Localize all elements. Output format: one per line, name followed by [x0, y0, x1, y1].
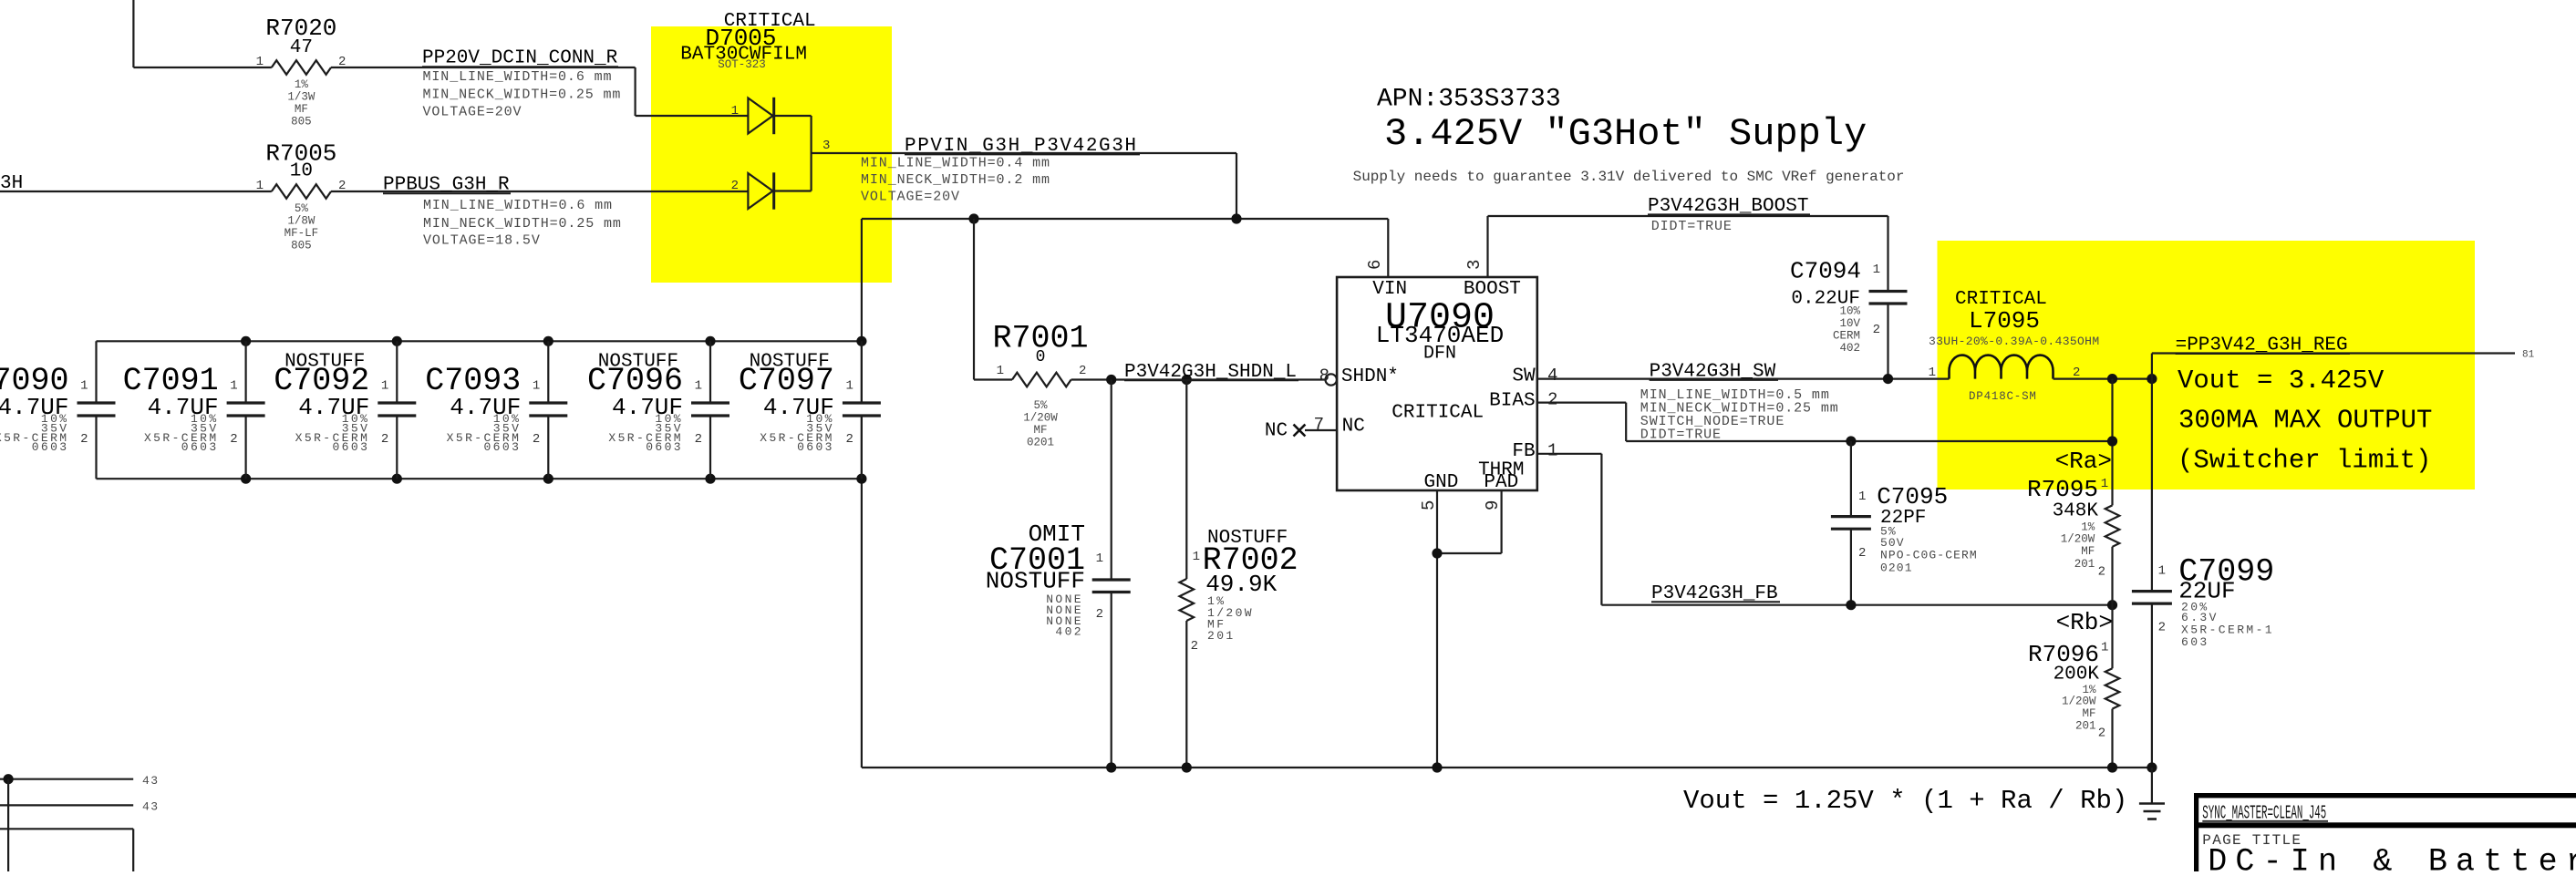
svg-text:MIN_LINE_WIDTH=0.6 mm: MIN_LINE_WIDTH=0.6 mm [423, 69, 613, 85]
svg-text:1%: 1% [295, 78, 309, 91]
diode D7005 element 2 [731, 172, 812, 209]
diode D7005 element 1 [731, 98, 812, 134]
VIN bus wire [862, 213, 1388, 223]
svg-text:10: 10 [290, 161, 313, 182]
svg-text:CERM: CERM [1833, 330, 1860, 343]
svg-text:201: 201 [2074, 558, 2095, 571]
svg-text:5%: 5% [1033, 399, 1048, 412]
capacitor C7093 [425, 341, 567, 479]
resistor R7095 [2027, 379, 2119, 605]
svg-text:VOLTAGE=20V: VOLTAGE=20V [861, 189, 960, 204]
svg-text:5: 5 [1419, 500, 1439, 510]
svg-text:L7095: L7095 [1969, 307, 2040, 335]
svg-text:1: 1 [256, 179, 264, 193]
svg-text:1: 1 [230, 379, 237, 394]
svg-text:SOT-323: SOT-323 [718, 58, 766, 71]
svg-text:1: 1 [2101, 641, 2108, 655]
inductor L7095 [1929, 289, 2100, 403]
svg-text:C7094: C7094 [1790, 258, 1861, 285]
net stub PPBUS_G3H (page edge) [0, 173, 272, 194]
svg-text:1/20W: 1/20W [2062, 695, 2096, 707]
svg-text:47: 47 [290, 37, 313, 58]
resistor R7020 [256, 15, 347, 129]
cap bank top bus [97, 336, 867, 346]
svg-text:1: 1 [256, 55, 264, 69]
BIAS pin 2 wire [1537, 390, 2113, 447]
svg-text:2: 2 [2098, 564, 2105, 579]
wire bus down to cap bank / ground riser [861, 219, 863, 768]
capacitor C7095 [1831, 441, 1978, 605]
svg-text:0603: 0603 [32, 440, 69, 454]
net label PPVIN_G3H_P3V42G3H [861, 136, 1140, 205]
svg-text:VIN: VIN [1372, 279, 1407, 300]
svg-text:2: 2 [1873, 323, 1880, 337]
svg-text:Vout = 3.425V: Vout = 3.425V [2178, 366, 2385, 396]
svg-text:2: 2 [1858, 546, 1866, 561]
svg-text:1: 1 [80, 379, 88, 394]
resistor R7001 [992, 320, 1088, 448]
svg-text:R7095: R7095 [2027, 476, 2098, 503]
ground symbol [2139, 768, 2165, 819]
svg-text:<Ra>: <Ra> [2055, 448, 2112, 475]
svg-text:CRITICAL: CRITICAL [1391, 402, 1484, 423]
svg-text:201: 201 [1207, 629, 1236, 643]
svg-text:2: 2 [731, 179, 739, 193]
text Vout formula [1683, 786, 2127, 816]
IC U7090 (LT3470AED regulator) [1337, 277, 1537, 493]
svg-text:Vout = 1.25V * (1 + Ra / Rb): Vout = 1.25V * (1 + Ra / Rb) [1683, 786, 2127, 816]
svg-text:1: 1 [845, 379, 853, 394]
svg-text:1: 1 [731, 104, 739, 119]
svg-text:3.425V "G3Hot" Supply: 3.425V "G3Hot" Supply [1384, 112, 1867, 156]
svg-text:201: 201 [2075, 719, 2096, 732]
svg-text:(Switcher limit): (Switcher limit) [2178, 445, 2431, 475]
text supply note [1353, 169, 1905, 185]
svg-text:PPBUS_G3H_R: PPBUS_G3H_R [383, 175, 510, 196]
svg-text:1: 1 [2101, 477, 2108, 491]
text APN [1377, 86, 1561, 114]
svg-text:43: 43 [142, 800, 160, 814]
svg-text:2: 2 [1547, 390, 1557, 410]
svg-text:BIAS: BIAS [1489, 391, 1535, 412]
svg-text:1/20W: 1/20W [1023, 412, 1058, 425]
net P3V42G3H_SW [1537, 362, 1950, 443]
svg-text:348K: 348K [2053, 501, 2099, 522]
resistor R7005 [256, 139, 347, 252]
capacitor C7097 [739, 341, 881, 479]
svg-text:2: 2 [230, 432, 237, 447]
svg-text:MF: MF [2081, 545, 2095, 558]
capacitor C7001 [986, 380, 1131, 768]
resistor R7002 [1180, 380, 1298, 768]
svg-text:3: 3 [1464, 260, 1485, 270]
title block SYNC_MASTER [2202, 803, 2328, 825]
D7005 common cathode wire / pin 3 [812, 116, 1236, 191]
svg-text:0201: 0201 [1027, 437, 1054, 449]
capacitor C7092 [274, 341, 416, 479]
capacitor C7099 [2132, 379, 2274, 768]
net label PPBUS_G3H_R [383, 175, 622, 249]
svg-text:BOOST: BOOST [1464, 279, 1521, 300]
diode D7005 labels [680, 11, 815, 71]
svg-text:1: 1 [1929, 366, 1936, 380]
svg-text:9: 9 [1483, 500, 1503, 510]
svg-text:300MA MAX OUTPUT: 300MA MAX OUTPUT [2178, 406, 2432, 436]
svg-text:MF: MF [295, 103, 308, 116]
svg-text:NPO-C0G-CERM: NPO-C0G-CERM [1880, 549, 1978, 562]
svg-text:Supply needs to guarantee 3.31: Supply needs to guarantee 3.31V delivere… [1353, 169, 1905, 185]
wire L7095 to output node [2054, 374, 2157, 384]
U7090 pin 3 stub (BOOST) [1464, 216, 1488, 277]
svg-text:1: 1 [997, 364, 1004, 378]
svg-text:5%: 5% [295, 202, 309, 215]
svg-text:MIN_NECK_WIDTH=0.25 mm: MIN_NECK_WIDTH=0.25 mm [423, 88, 622, 103]
svg-text:DIDT=TRUE: DIDT=TRUE [1651, 219, 1733, 234]
U7090 pin 7 NC with no-connect X [1265, 415, 1337, 442]
svg-text:1: 1 [1873, 263, 1880, 277]
svg-text:DP418C-SM: DP418C-SM [1969, 390, 2037, 403]
title block frame [2194, 793, 2576, 871]
svg-text:7: 7 [1314, 415, 1324, 435]
svg-text:603: 603 [2181, 635, 2209, 649]
wire PPVIN drop to VIN bus [1236, 153, 1237, 219]
svg-text:MF: MF [1033, 424, 1047, 437]
text page title 3.425V G3Hot Supply [1384, 112, 1867, 156]
svg-text:3: 3 [822, 139, 830, 153]
svg-text:MF-LF: MF-LF [284, 227, 319, 240]
svg-text:<Rb>: <Rb> [2056, 609, 2113, 636]
svg-text:1: 1 [1096, 551, 1103, 566]
svg-text:2: 2 [80, 432, 88, 447]
svg-text:0: 0 [1036, 348, 1046, 366]
svg-text:2: 2 [533, 432, 540, 447]
svg-text:81: 81 [2522, 350, 2535, 361]
svg-text:6: 6 [1365, 260, 1385, 270]
node <Ra> label [2055, 448, 2112, 475]
wire to off-page 43 (b) [0, 800, 160, 814]
net P3V42G3H_BOOST [1488, 196, 1888, 234]
svg-text:402: 402 [1839, 342, 1860, 355]
svg-text:43: 43 [142, 774, 160, 788]
wire VIN bus to R7001 [974, 219, 1012, 380]
highlight box around D7005 [651, 26, 892, 283]
svg-text:GND: GND [1424, 472, 1459, 493]
svg-text:MIN_NECK_WIDTH=0.2 mm: MIN_NECK_WIDTH=0.2 mm [861, 172, 1050, 188]
wire from top edge to R7020 [133, 0, 271, 67]
svg-text:1/20W: 1/20W [2061, 532, 2095, 545]
svg-text:805: 805 [291, 240, 312, 252]
capacitor C7090 [0, 341, 116, 479]
title block PAGE TITLE [2202, 832, 2302, 849]
svg-text:1: 1 [2158, 564, 2166, 579]
svg-text:2: 2 [1096, 607, 1103, 622]
ground bus [862, 762, 2157, 772]
svg-text:NC: NC [1342, 417, 1365, 438]
svg-text:0603: 0603 [646, 440, 683, 454]
U7090 SHDN bubble pin 8 [1319, 366, 1337, 386]
svg-text:NOSTUFF: NOSTUFF [986, 567, 1085, 594]
net label P3V42G3H_SHDN_L [1124, 362, 1298, 383]
svg-text:2: 2 [381, 432, 388, 447]
cap bank bottom bus [97, 474, 867, 484]
capacitor C7096 [587, 341, 729, 479]
svg-text:6.3V: 6.3V [2181, 611, 2219, 624]
svg-text:1: 1 [695, 379, 702, 394]
resistor R7096 [2028, 605, 2119, 768]
wire to off-page 43 (a) [0, 774, 160, 871]
title block page name DC-In & Battery [2208, 844, 2576, 876]
svg-text:402: 402 [1055, 625, 1083, 639]
svg-text:33UH-20%-0.39A-0.435OHM: 33UH-20%-0.39A-0.435OHM [1929, 335, 2099, 348]
svg-text:SHDN*: SHDN* [1341, 366, 1399, 387]
svg-text:1: 1 [533, 379, 540, 394]
svg-text:4: 4 [1547, 366, 1557, 386]
svg-text:2: 2 [2158, 621, 2166, 635]
highlight box around L7095 / output note [1938, 241, 2476, 490]
node <Rb> label [2056, 609, 2113, 636]
svg-text:DC-In & Batter: DC-In & Batter [2208, 844, 2576, 871]
svg-text:VOLTAGE=18.5V: VOLTAGE=18.5V [423, 233, 541, 249]
svg-text:NC: NC [1265, 421, 1288, 442]
svg-text:0603: 0603 [797, 440, 834, 454]
svg-text:0603: 0603 [483, 440, 521, 454]
U7090 pin 6 stub (VIN) [1365, 219, 1388, 277]
svg-text:DFN: DFN [1423, 343, 1456, 364]
svg-text:1: 1 [1858, 490, 1866, 504]
wire R7001 to SHDN* pin [1071, 375, 1326, 385]
capacitor C7091 [123, 341, 265, 479]
svg-text:C7095: C7095 [1877, 483, 1948, 510]
svg-text:1: 1 [1547, 441, 1557, 461]
svg-text:0603: 0603 [332, 440, 369, 454]
svg-text:805: 805 [291, 116, 312, 129]
svg-text:MIN_LINE_WIDTH=0.4 mm: MIN_LINE_WIDTH=0.4 mm [861, 155, 1050, 170]
svg-text:2: 2 [2098, 727, 2105, 741]
wire R7005 to diode 2 of D7005 [331, 191, 748, 192]
svg-text:2: 2 [695, 432, 702, 447]
svg-text:VOLTAGE=20V: VOLTAGE=20V [423, 104, 522, 119]
svg-text:MF: MF [2082, 707, 2095, 720]
svg-text:1/8W: 1/8W [287, 215, 316, 228]
svg-text:10%: 10% [1839, 305, 1860, 318]
svg-text:1: 1 [381, 379, 388, 394]
svg-text:MIN_LINE_WIDTH=0.6 mm: MIN_LINE_WIDTH=0.6 mm [423, 198, 613, 213]
U7090 pin 5 GND / pin 9 THRM PAD [1419, 490, 1503, 768]
svg-text:MIN_NECK_WIDTH=0.25 mm: MIN_NECK_WIDTH=0.25 mm [423, 216, 622, 232]
svg-text:2: 2 [1079, 364, 1086, 378]
svg-text:8: 8 [1319, 366, 1329, 386]
wire R7020 to diode 1 of D7005 [331, 67, 748, 116]
svg-text:1/3W: 1/3W [287, 91, 316, 104]
svg-text:0201: 0201 [1880, 561, 1913, 574]
net label PP20V_DCIN_CONN_R [422, 48, 621, 120]
FB pin 1 wire / net P3V42G3H_FB [1537, 441, 2117, 611]
svg-text:0603: 0603 [181, 440, 219, 454]
svg-text:200K: 200K [2054, 665, 2100, 685]
svg-text:SW: SW [1512, 366, 1536, 386]
output note text [2178, 366, 2432, 475]
svg-text:PAD: PAD [1484, 472, 1518, 493]
svg-text:2: 2 [1191, 639, 1198, 654]
svg-text:APN:353S3733: APN:353S3733 [1377, 86, 1561, 114]
capacitor C7094 [1790, 216, 1908, 379]
wire corner lower-left block [0, 829, 133, 871]
svg-text:2: 2 [845, 432, 853, 447]
svg-text:1: 1 [1193, 550, 1200, 564]
svg-text:10V: 10V [1839, 317, 1860, 330]
net stub =PP3V42_G3H_REG to off-page 81 [2152, 335, 2535, 379]
